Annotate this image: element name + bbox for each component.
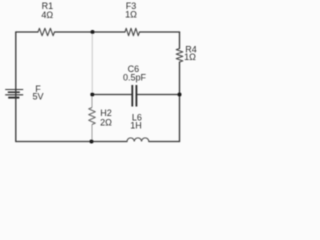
wire H2 leads <box>91 95 93 142</box>
wire right-upper <box>179 32 181 49</box>
resistor R4 <box>176 49 183 63</box>
svg-text:5V: 5V <box>32 91 43 101</box>
wire top-right <box>140 31 180 33</box>
wire middle-horizontal-left <box>92 94 131 96</box>
node junction bottom <box>90 140 94 144</box>
wire bottom-right <box>149 141 180 143</box>
capacitor C6 plates <box>132 85 136 107</box>
wire top-middle <box>55 31 126 33</box>
battery F plates <box>5 90 23 98</box>
svg-text:1Ω: 1Ω <box>125 10 137 20</box>
svg-text:2Ω: 2Ω <box>100 117 112 127</box>
wire left-lower <box>15 90 17 142</box>
node junction top <box>91 30 95 34</box>
inductor L6 <box>127 138 149 142</box>
resistor H2 <box>89 108 96 125</box>
svg-text:1Ω: 1Ω <box>184 52 196 62</box>
wire bottom-left <box>16 141 127 143</box>
resistor R1 <box>38 28 55 35</box>
wire top-left <box>16 31 38 33</box>
node junction middle-right <box>178 93 182 97</box>
svg-text:0.5pF: 0.5pF <box>123 72 147 82</box>
wire middle-horizontal-right <box>137 94 179 96</box>
node junction middle-left <box>90 93 94 97</box>
resistor F3 <box>125 28 140 35</box>
svg-text:1H: 1H <box>130 121 142 131</box>
wire left-upper <box>15 32 17 90</box>
svg-text:4Ω: 4Ω <box>41 10 53 20</box>
wire right-lower <box>179 62 181 142</box>
wire middle-vertical <box>91 32 93 95</box>
